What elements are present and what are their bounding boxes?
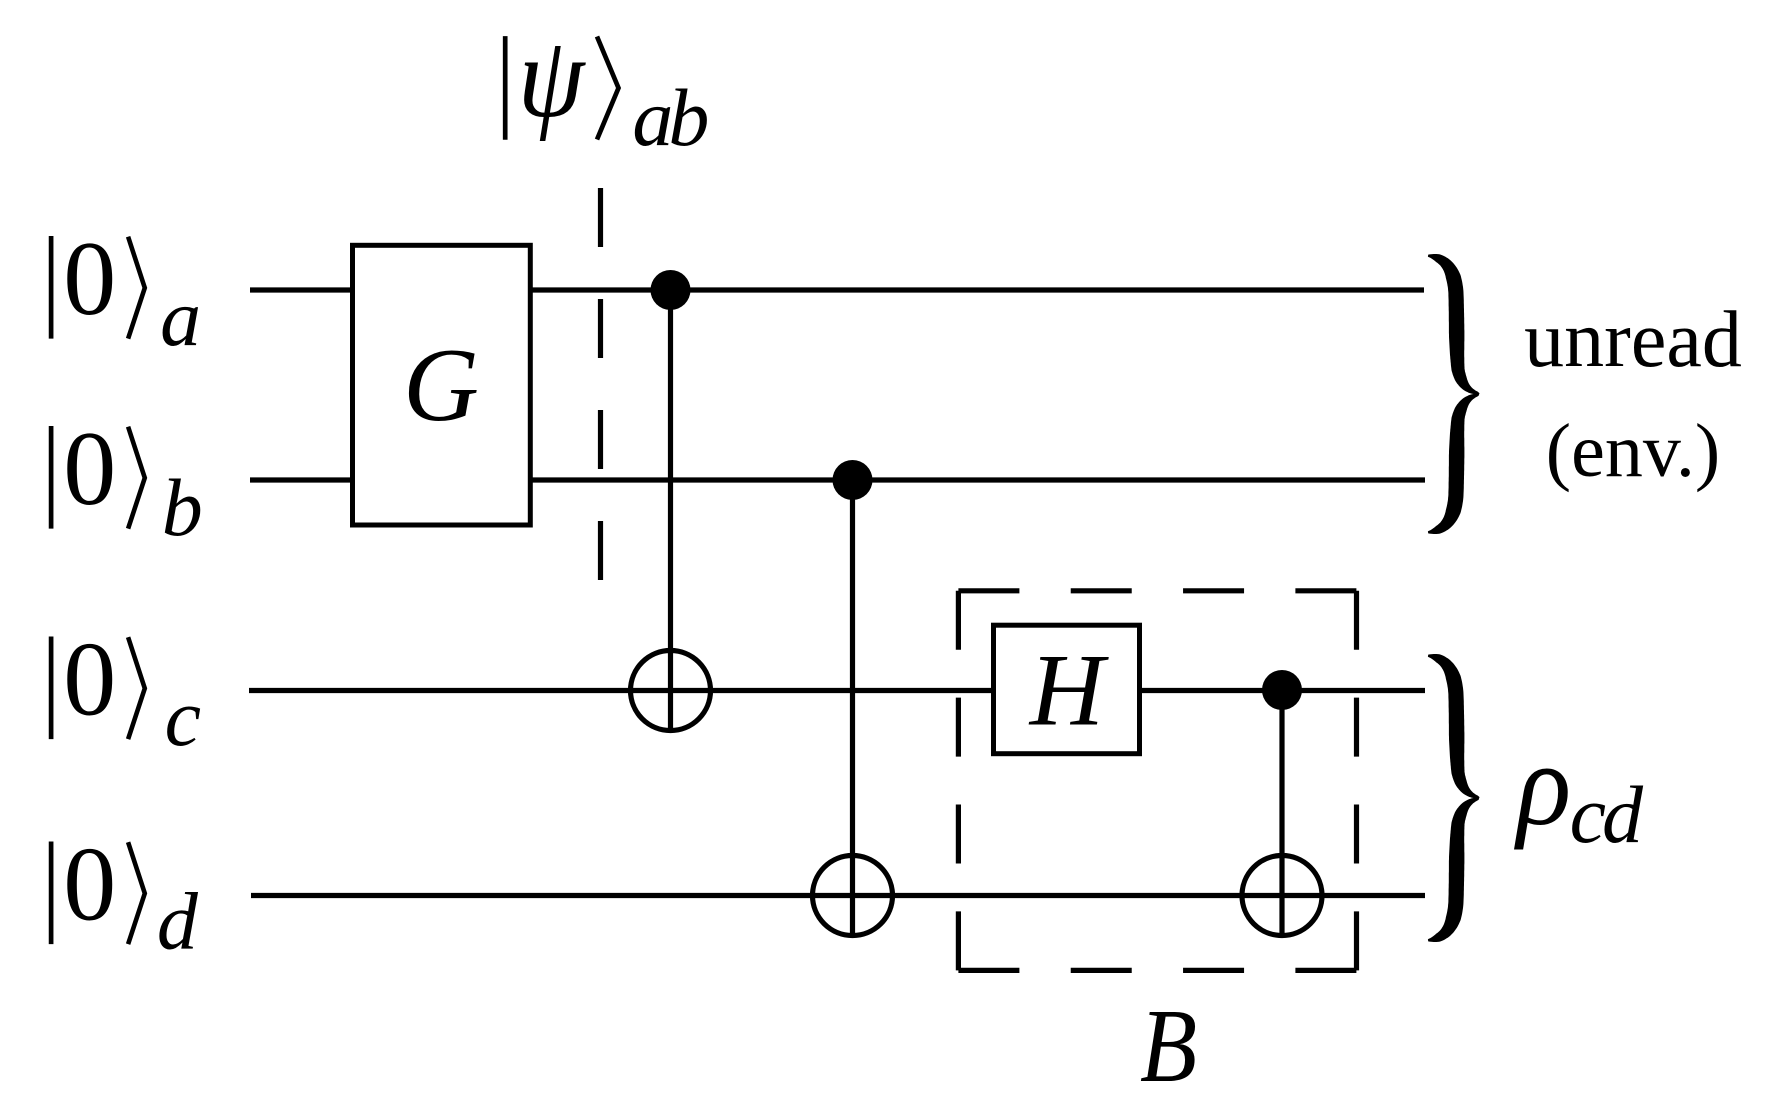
label |psi>_ab : rangle — [597, 37, 619, 140]
ket |0>_c : rangle — [128, 637, 145, 739]
label |psi>_ab : bar — [503, 36, 508, 140]
dashed box B : right edge — [1354, 591, 1359, 971]
wire b — [250, 477, 1425, 482]
node control dot a (CNOT a->c) — [651, 270, 691, 310]
svg-text:0: 0 — [63, 410, 116, 527]
brace rho_cd (wires c,d) — [1428, 654, 1480, 942]
wire a — [250, 287, 1424, 292]
node control dot b (CNOT b->d) — [833, 460, 873, 500]
gate H box — [994, 625, 1140, 754]
svg-text:G: G — [403, 326, 479, 443]
node control dot c (CNOT c->d) — [1262, 670, 1302, 710]
brace unread (wires a,b) — [1428, 254, 1480, 534]
dashed box B : left edge — [956, 591, 961, 971]
svg-text:(env.): (env.) — [1546, 409, 1720, 493]
wire d — [251, 893, 1425, 898]
ket |0>_c : bar — [49, 637, 54, 740]
ket |0>_b : rangle — [128, 427, 145, 529]
svg-text:a: a — [160, 272, 201, 363]
dashed barrier line for state psi_ab — [598, 188, 603, 580]
wire CNOT2 vertical b->d — [850, 480, 855, 938]
ket |0>_d : bar — [49, 842, 54, 945]
svg-text:0: 0 — [63, 826, 116, 943]
ket |0>_a : bar — [49, 236, 54, 339]
wire c — [249, 688, 1425, 693]
svg-text:cd: cd — [1570, 769, 1644, 860]
wire CNOT3 vertical c->d — [1279, 690, 1284, 938]
svg-text:B: B — [1140, 988, 1197, 1104]
svg-text:H: H — [1028, 634, 1110, 748]
CNOT target on wire c — [631, 651, 711, 731]
ket |0>_d : rangle — [128, 842, 145, 944]
wire CNOT1 vertical a->c — [668, 290, 673, 733]
dashed box B : bottom edge — [958, 968, 1356, 973]
ket |0>_a : rangle — [128, 237, 145, 339]
dashed box B : top edge — [958, 588, 1356, 593]
svg-text:unread: unread — [1524, 296, 1742, 384]
svg-text:ρ: ρ — [1514, 719, 1571, 850]
CNOT target on wire d (from b) — [813, 856, 893, 936]
svg-text:c: c — [165, 672, 201, 763]
svg-text:ab: ab — [632, 72, 709, 163]
svg-text:ψ: ψ — [518, 13, 587, 142]
svg-text:d: d — [157, 876, 199, 967]
ket |0>_b : bar — [49, 426, 54, 529]
svg-text:0: 0 — [63, 220, 116, 337]
svg-text:0: 0 — [63, 621, 116, 738]
svg-text:b: b — [162, 462, 203, 553]
CNOT target on wire d (from c) — [1242, 856, 1322, 936]
gate G box — [353, 245, 531, 525]
